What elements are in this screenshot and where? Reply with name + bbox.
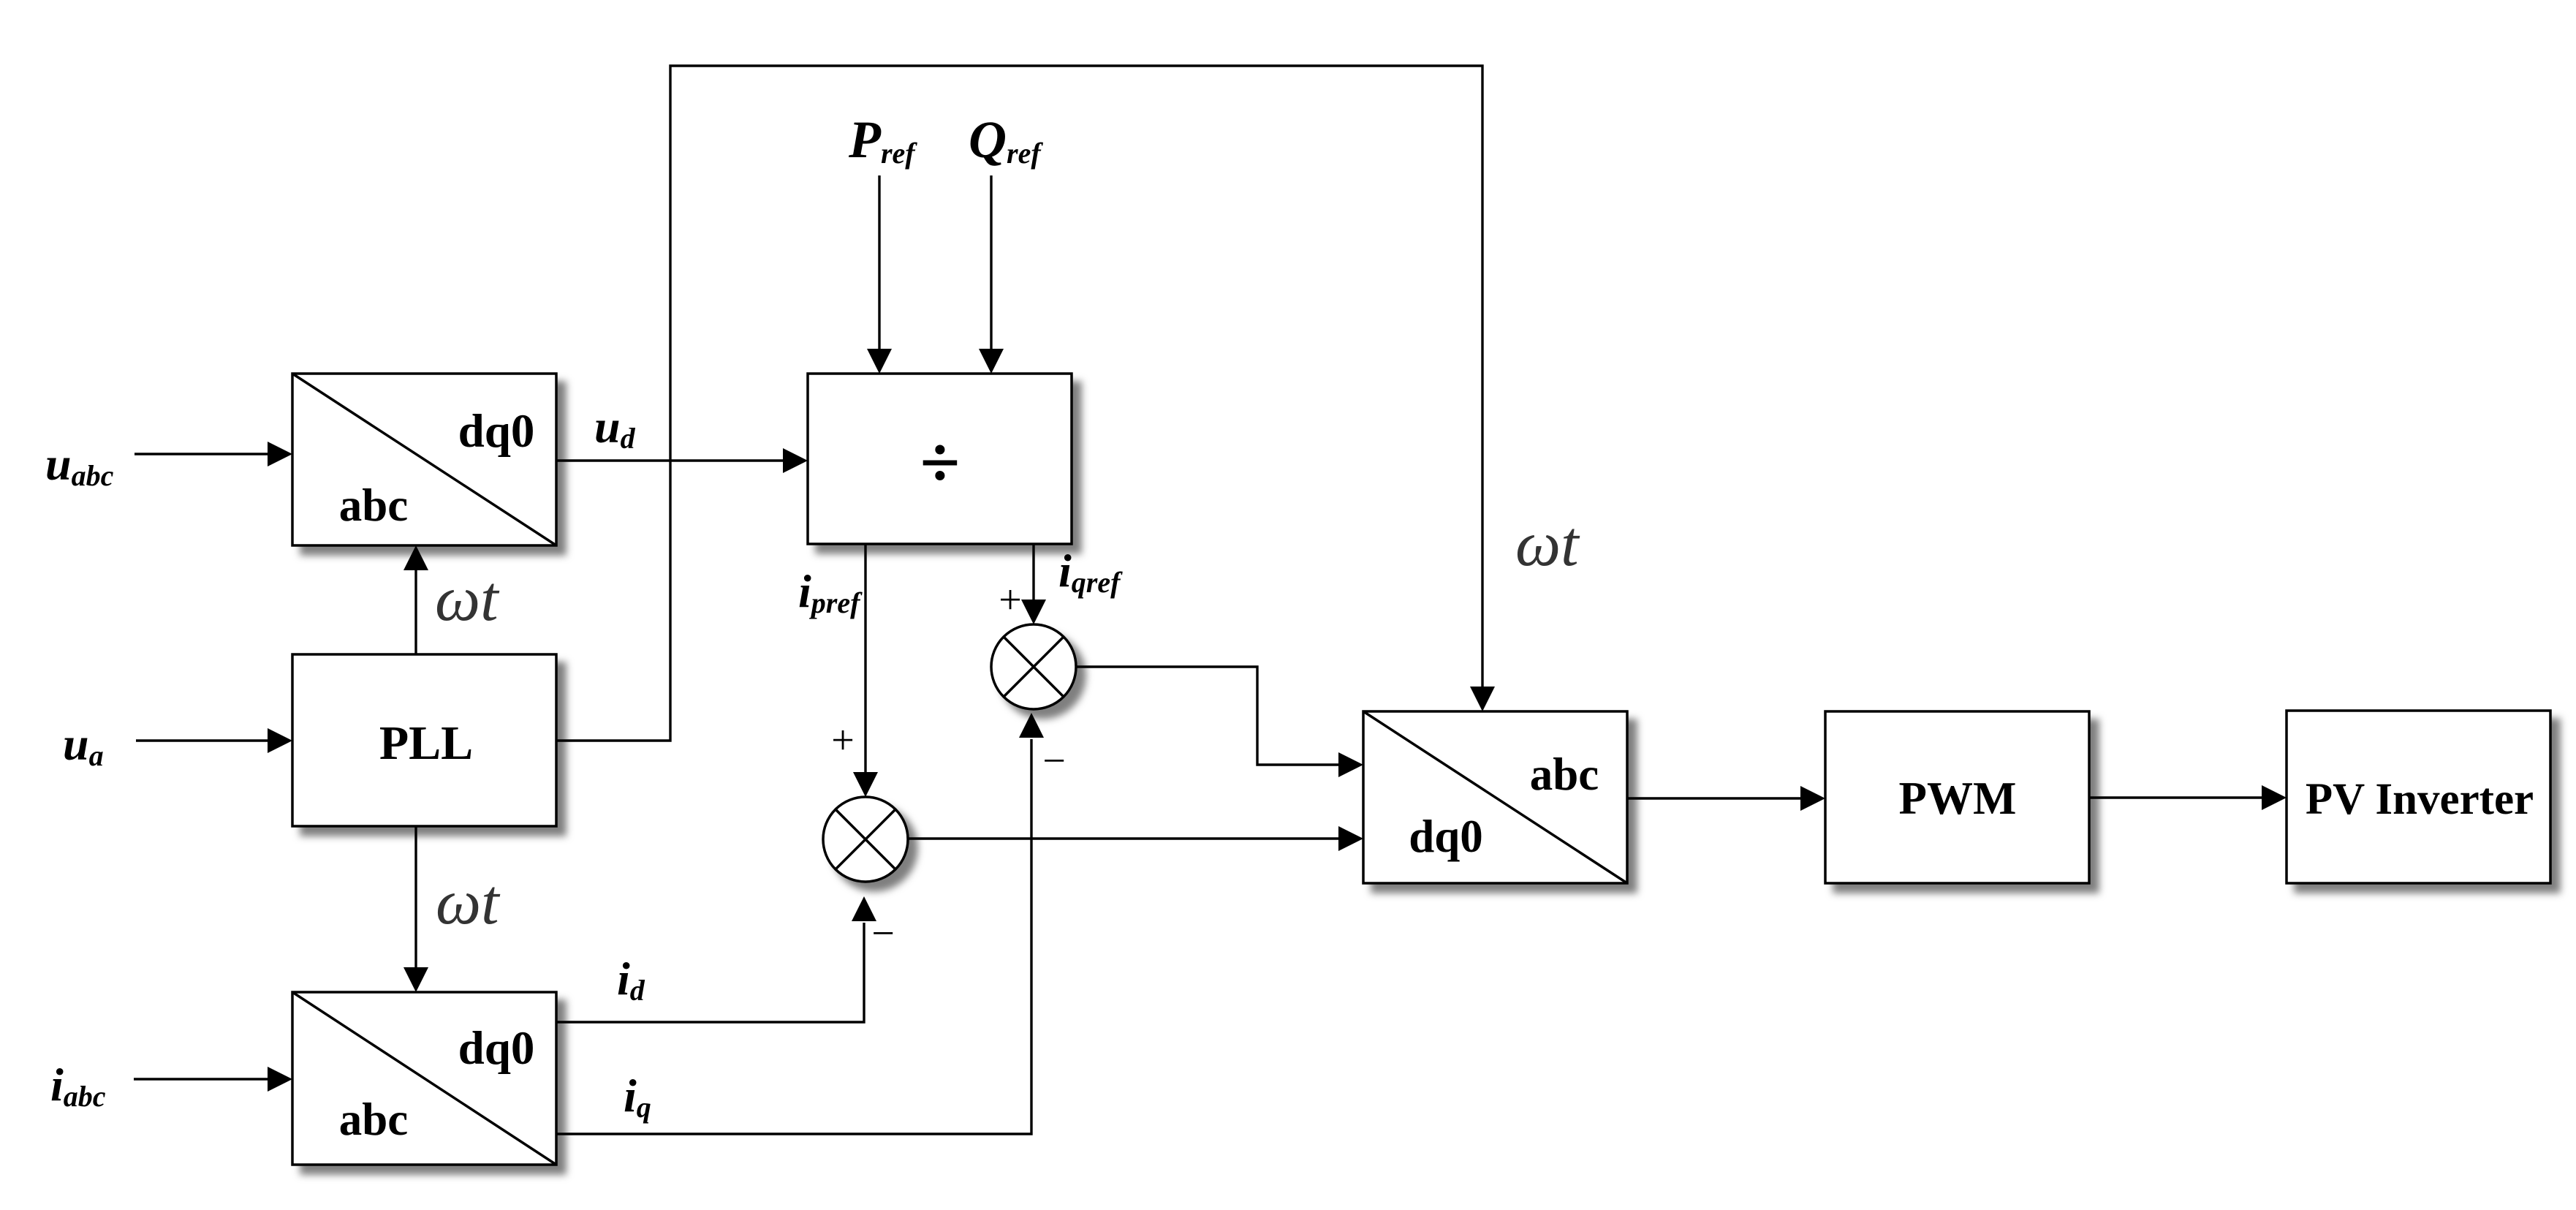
block U1 abc->dq0 (voltage transform) (292, 374, 556, 545)
wire Q_ref input (990, 175, 992, 350)
block U4 divider (808, 374, 1072, 544)
block U6 PWM (1825, 711, 2089, 883)
svg-text:PV Inverter: PV Inverter (2306, 775, 2534, 824)
wire M2 output to U5 lower input (908, 837, 1340, 839)
svg-text:+: + (999, 578, 1022, 623)
svg-text:dq0: dq0 (458, 405, 535, 458)
X of M2 (836, 809, 895, 869)
arrowhead u_d into divider (783, 448, 808, 473)
arrowhead i_qref into M1 top (1021, 600, 1046, 624)
svg-text:ωt: ωt (435, 564, 500, 635)
svg-text:abc: abc (339, 1094, 409, 1145)
wire PWM to PV Inverter (2089, 796, 2263, 798)
wire U5 to PWM (1627, 797, 1802, 799)
wire P_ref input (878, 175, 880, 350)
arrowhead i_d into M2 bottom (852, 896, 876, 921)
arrowhead u_abc into U1 (268, 442, 292, 466)
svg-text:abc: abc (339, 480, 409, 531)
svg-text:dq0: dq0 (1409, 811, 1483, 862)
arrowhead i_q into M1 bottom (1019, 713, 1044, 738)
arrowhead omega-t into U1 bottom (404, 545, 428, 570)
wire i_abc input (134, 1078, 269, 1080)
wire PLL output feedback to U5 (omega-t) (556, 66, 1482, 741)
arrowhead u_a into PLL (268, 728, 292, 753)
multiplier M1 (q-axis) (991, 624, 1076, 709)
arrowhead into PWM (1800, 786, 1825, 811)
svg-text:ωt: ωt (1515, 509, 1580, 580)
svg-text:−: − (871, 911, 895, 956)
arrowhead P_ref into divider top (867, 349, 892, 374)
svg-text:+: + (831, 718, 855, 763)
arrowhead into U5 upper input (1338, 752, 1363, 777)
arrowhead i_abc into U3 (268, 1067, 292, 1092)
wire omega-t PLL to U3 (414, 826, 417, 969)
arrowhead into PV Inverter (2262, 785, 2287, 810)
wire M1 output to U5 upper input (1076, 667, 1340, 765)
wire u_a input (136, 739, 269, 741)
block U2 PLL (292, 654, 556, 826)
svg-text:ωt: ωt (436, 867, 501, 938)
wire omega-t PLL to U1 (414, 569, 417, 654)
svg-text:÷: ÷ (920, 422, 961, 503)
wire i_d U3 to M2 (556, 923, 864, 1022)
svg-text:dq0: dq0 (458, 1022, 535, 1075)
wire i_pref divider to M2 (864, 545, 866, 774)
wire u_abc input (135, 453, 269, 455)
arrowhead omega-t into U5 top (1470, 687, 1495, 711)
X of M1 (1004, 637, 1064, 697)
wire i_qref divider to M1 (1032, 545, 1034, 601)
multiplier M2 (d-axis) (823, 797, 908, 882)
svg-text:PWM: PWM (1899, 773, 2017, 824)
arrowhead Q_ref into divider top (979, 349, 1004, 374)
arrowhead i_pref into M2 top (853, 772, 878, 797)
block U3 abc->dq0 (current transform) (292, 992, 556, 1165)
svg-text:−: − (1042, 738, 1066, 784)
svg-text:PLL: PLL (379, 716, 473, 770)
svg-text:abc: abc (1530, 749, 1599, 800)
arrowhead into U5 lower input (1338, 826, 1363, 851)
wire i_q U3 to M1 (556, 739, 1031, 1134)
arrowhead omega-t into U3 top (404, 967, 428, 992)
wire u_d U1 to divider (556, 459, 784, 461)
block U7 PV Inverter (2287, 711, 2550, 883)
block U5 dq0->abc (inverse transform) (1363, 711, 1627, 883)
